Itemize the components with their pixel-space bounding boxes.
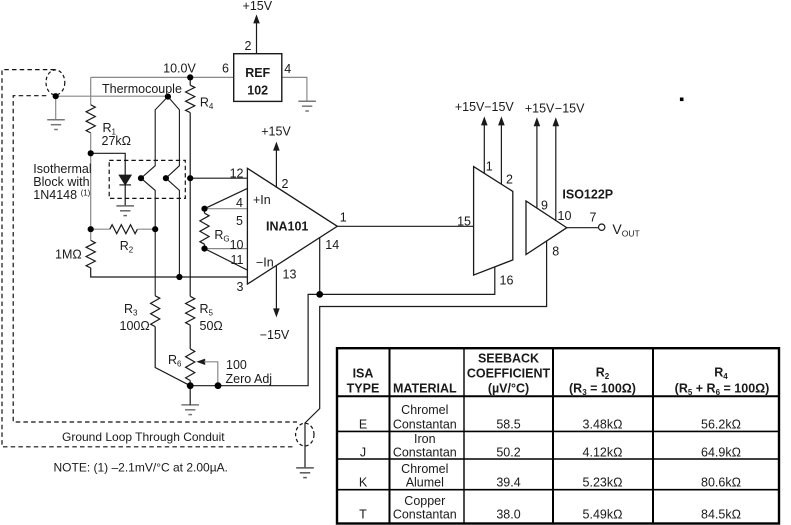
- svg-text:5.23kΩ: 5.23kΩ: [583, 476, 623, 490]
- stray dot top right: [680, 98, 684, 102]
- resistor R5: [186, 296, 195, 325]
- svg-text:SEEBACK: SEEBACK: [478, 351, 539, 365]
- wire zero adj run: [190, 294, 320, 385]
- node conduit/thermocouple ground: [53, 93, 59, 99]
- svg-text:TYPE: TYPE: [347, 382, 380, 396]
- isothermal block dashed box: [109, 160, 185, 198]
- node zero adj: [215, 382, 222, 389]
- svg-text:Constantan: Constantan: [393, 508, 457, 522]
- svg-text:Copper: Copper: [404, 494, 445, 508]
- node R4 bottom: [187, 175, 193, 181]
- svg-text:ISA: ISA: [353, 366, 374, 380]
- op-amp ISO122P triangle: [526, 201, 567, 255]
- wire pin14: [319, 238, 321, 295]
- wire pin5: [205, 208, 248, 210]
- node thermocouple left junction: [138, 175, 144, 181]
- wire REF102 pin4 to ground: [282, 77, 307, 101]
- potentiometer R6: [186, 349, 195, 381]
- svg-text:8: 8: [552, 245, 559, 259]
- svg-text:64.9kΩ: 64.9kΩ: [701, 445, 741, 459]
- svg-text:MATERIAL: MATERIAL: [393, 382, 457, 396]
- svg-text:2: 2: [506, 173, 513, 187]
- table header text: [347, 351, 770, 397]
- node R2 left: [88, 226, 94, 232]
- svg-text:+15V: +15V: [261, 125, 291, 139]
- wire thermocouple right lead: [166, 97, 180, 277]
- resistor R2: [110, 225, 138, 234]
- wire iso pin8 run to conduit ground: [305, 241, 547, 468]
- svg-text:10.0V: 10.0V: [163, 61, 196, 75]
- svg-text:ISO122P: ISO122P: [562, 188, 613, 202]
- svg-text:14: 14: [325, 238, 339, 252]
- wire pin14 node to pin16: [320, 267, 495, 295]
- svg-text:11: 11: [231, 253, 244, 267]
- conduit opening ellipse bottom: [296, 423, 314, 446]
- wire node to R2: [90, 153, 92, 229]
- wire left column x90.7: [90, 77, 92, 104]
- node pin14 junction: [316, 291, 323, 298]
- svg-text:58.5: 58.5: [496, 417, 520, 431]
- barrier pin1 +15V arrow: [483, 125, 485, 174]
- conduit inner dashed: [13, 96, 297, 422]
- op-amp INA101 triangle: [247, 168, 337, 284]
- wire R3 bottom diagonal: [155, 327, 190, 386]
- svg-text:REF: REF: [245, 66, 270, 80]
- resistor RG: [200, 213, 209, 244]
- table body text: [359, 403, 741, 522]
- svg-text:−15V: −15V: [484, 100, 514, 114]
- wire R6 node to ground: [189, 386, 191, 405]
- svg-text:INA101: INA101: [266, 219, 308, 233]
- ground at diode: [116, 206, 134, 216]
- svg-text:6: 6: [222, 62, 229, 76]
- INA101 pin2 +15V arrow: [275, 150, 277, 188]
- resistor R4: [186, 85, 195, 112]
- wire thermocouple return: [56, 95, 168, 97]
- wire conduit node to ground: [55, 96, 57, 119]
- conduit outer dashed top: [2, 70, 296, 447]
- wire INA101 output to pin15: [337, 225, 473, 227]
- svg-text:+15V: +15V: [455, 100, 485, 114]
- svg-text:E: E: [359, 417, 367, 431]
- svg-text:Constantan: Constantan: [393, 417, 457, 431]
- wire ISO output: [567, 227, 599, 229]
- svg-text:9: 9: [541, 199, 548, 213]
- node RG bottom: [201, 246, 207, 252]
- wire pin12: [190, 177, 247, 179]
- svg-text:50.2: 50.2: [496, 445, 520, 459]
- wire R6 bottom: [189, 381, 191, 386]
- svg-text:J: J: [360, 445, 366, 459]
- node R2 right: [152, 226, 158, 232]
- ground at REF102 pin4: [298, 101, 316, 111]
- INA101 pin13 -15V arrow: [275, 265, 277, 309]
- svg-text:84.5kΩ: 84.5kΩ: [701, 508, 741, 522]
- svg-text:(µV/°C): (µV/°C): [488, 382, 529, 396]
- svg-text:39.4: 39.4: [496, 476, 520, 490]
- ISO pin10 -15V arrow: [555, 126, 557, 221]
- node R1 bottom: [88, 150, 94, 156]
- svg-text:2: 2: [282, 177, 289, 191]
- svg-text:Alumel: Alumel: [406, 476, 444, 490]
- svg-text:1MΩ: 1MΩ: [55, 247, 82, 261]
- svg-text:12: 12: [230, 167, 244, 181]
- svg-text:Chromel: Chromel: [401, 462, 448, 476]
- svg-text:80.6kΩ: 80.6kΩ: [701, 476, 741, 490]
- resistor R1 27k: [86, 105, 95, 133]
- node R6 bottom: [187, 382, 194, 389]
- wire R5 to R6: [189, 325, 191, 349]
- wire 10.0V rail: [91, 76, 234, 78]
- svg-text:+15V: +15V: [243, 0, 273, 13]
- svg-text:4: 4: [284, 62, 291, 76]
- svg-text:+15V: +15V: [525, 102, 555, 116]
- svg-text:102: 102: [247, 84, 268, 98]
- svg-text:1: 1: [486, 159, 493, 173]
- node RG top: [201, 206, 207, 212]
- svg-text:4.12kΩ: 4.12kΩ: [583, 445, 623, 459]
- svg-text:Thermocouple: Thermocouple: [102, 82, 182, 96]
- svg-text:5.49kΩ: 5.49kΩ: [583, 508, 623, 522]
- REF102 box U2: [234, 54, 282, 102]
- wire R4 bottom to node and down: [189, 113, 191, 297]
- ground at thermocouple return: [47, 120, 65, 130]
- svg-text:Constantan: Constantan: [393, 445, 457, 459]
- ISO pin9 +15V arrow: [536, 126, 538, 209]
- isolation barrier parallelogram: [474, 167, 513, 276]
- node right lead to rail: [176, 274, 182, 280]
- wire 1M bottom to rail: [91, 268, 248, 277]
- svg-text:50Ω: 50Ω: [200, 319, 223, 333]
- resistor R2 right wire: [137, 228, 155, 230]
- svg-text:16: 16: [500, 274, 514, 288]
- svg-text:Isothermal: Isothermal: [33, 162, 91, 176]
- wire pin11 diagonal: [205, 249, 248, 271]
- wire pin4 diagonal: [205, 188, 248, 208]
- svg-text:27kΩ: 27kΩ: [102, 134, 132, 148]
- svg-text:K: K: [359, 476, 368, 490]
- svg-text:−15V: −15V: [260, 328, 290, 342]
- svg-text:38.0: 38.0: [496, 508, 520, 522]
- barrier pin2 -15V arrow: [500, 125, 502, 184]
- svg-text:−In: −In: [256, 256, 274, 270]
- resistor R3: [151, 296, 160, 327]
- wire R2 node down: [90, 229, 92, 240]
- wire R1 to node: [90, 133, 92, 153]
- svg-text:1: 1: [340, 211, 347, 225]
- diode 1N4148: [119, 175, 131, 206]
- svg-text:56.2kΩ: 56.2kΩ: [701, 417, 741, 431]
- wire thermocouple left lead: [141, 97, 168, 296]
- svg-text:100: 100: [226, 358, 247, 372]
- resistor RG wires: [204, 209, 206, 214]
- svg-text:15: 15: [457, 214, 471, 228]
- svg-text:(R3 = 100Ω): (R3 = 100Ω): [569, 382, 636, 398]
- ground at R6: [181, 405, 199, 415]
- svg-text:−15V: −15V: [555, 102, 585, 116]
- svg-text:Iron: Iron: [414, 432, 436, 446]
- R6 wiper arrow: [196, 359, 205, 365]
- svg-text:3.48kΩ: 3.48kΩ: [583, 417, 623, 431]
- node thermocouple top: [165, 94, 171, 100]
- svg-text:NOTE: (1) –2.1mV/°C at 2.00µA.: NOTE: (1) –2.1mV/°C at 2.00µA.: [54, 460, 228, 474]
- thermocouple leads: [141, 97, 179, 296]
- svg-text:Chromel: Chromel: [401, 403, 448, 417]
- svg-text:T: T: [359, 508, 367, 522]
- table frame: [337, 348, 779, 523]
- wire diode branch: [91, 153, 126, 175]
- svg-text:2: 2: [245, 39, 252, 53]
- svg-text:100Ω: 100Ω: [120, 319, 150, 333]
- svg-text:10: 10: [230, 238, 244, 252]
- resistor R2 left wire: [91, 228, 110, 230]
- svg-text:7: 7: [589, 211, 596, 225]
- svg-text:3: 3: [237, 280, 244, 294]
- REF102 pin 2 wire to +15V: [256, 23, 258, 54]
- svg-text:COEFFICIENT: COEFFICIENT: [467, 366, 551, 380]
- svg-text:Zero Adj: Zero Adj: [226, 372, 273, 386]
- svg-text:Ground Loop Through Conduit: Ground Loop Through Conduit: [62, 430, 225, 444]
- resistor 1M: [86, 240, 95, 268]
- wire pin10: [205, 248, 248, 250]
- svg-text:4: 4: [236, 196, 243, 210]
- ground at conduit bottom: [296, 468, 314, 478]
- output terminal circle: [599, 224, 605, 230]
- svg-text:13: 13: [283, 267, 297, 281]
- node thermocouple right junction: [163, 175, 169, 181]
- svg-text:+In: +In: [253, 193, 271, 207]
- resistor R4 top wire: [189, 77, 191, 85]
- svg-text:10: 10: [558, 209, 572, 223]
- svg-text:5: 5: [236, 214, 243, 228]
- conduit opening ellipse top-left: [46, 70, 65, 95]
- node R4 top: [187, 74, 193, 80]
